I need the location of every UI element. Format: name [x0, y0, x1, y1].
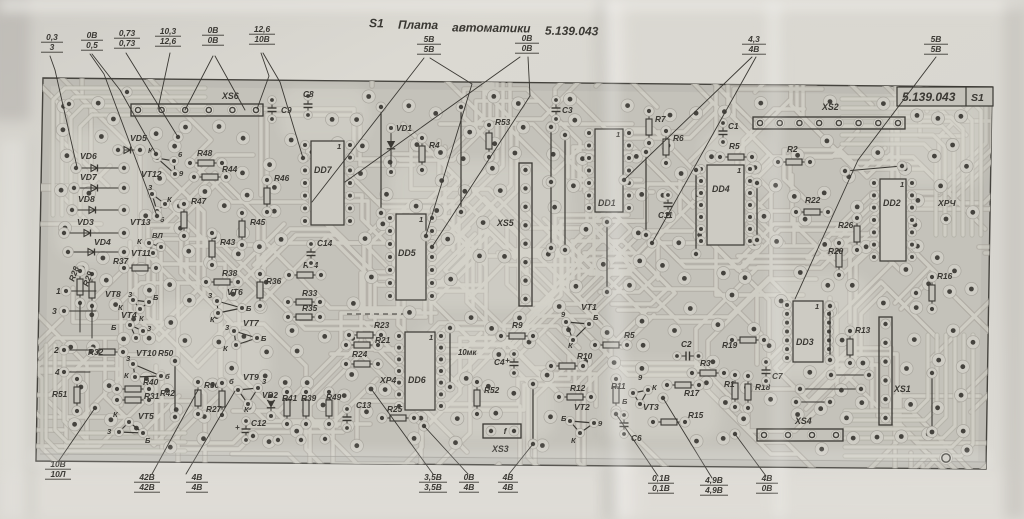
svg-text:XS5: XS5: [496, 218, 514, 228]
board inner edge line: [40, 454, 986, 462]
svg-text:0В: 0В: [522, 33, 533, 43]
svg-text:ХРЧ: ХРЧ: [937, 198, 956, 208]
wire jumper 9: [752, 178, 762, 245]
resistor R47: [179, 196, 207, 241]
svg-text:VD7: VD7: [80, 172, 98, 182]
resistor R23: [344, 320, 390, 340]
diode VD3: [59, 217, 130, 238]
svg-text:R10: R10: [577, 351, 593, 361]
svg-text:S1: S1: [369, 16, 384, 30]
svg-text:б: б: [229, 377, 234, 386]
connector XS5: [496, 163, 532, 306]
svg-text:C1: C1: [728, 121, 739, 131]
node annotation: [155, 26, 181, 46]
svg-text:R2: R2: [787, 144, 798, 154]
wire jumper 6: [602, 217, 612, 297]
svg-text:1: 1: [429, 333, 433, 342]
transistor VT12: [141, 146, 184, 179]
svg-text:R21: R21: [375, 335, 391, 345]
svg-text:R49: R49: [326, 392, 342, 402]
svg-text:R23: R23: [374, 320, 390, 330]
svg-text:R36: R36: [266, 276, 282, 286]
resistor R53: [484, 117, 511, 162]
transistor VT2: [561, 402, 603, 445]
svg-text:DD7: DD7: [314, 165, 333, 175]
resistor R44: [189, 164, 238, 182]
node annotation: [459, 472, 479, 492]
svg-text:R33: R33: [302, 288, 318, 298]
svg-text:R1: R1: [724, 379, 735, 389]
wire jumper 3: [445, 323, 455, 392]
resistor R29: [80, 269, 97, 311]
svg-text:VT11: VT11: [131, 248, 151, 258]
svg-text:Б: Б: [145, 436, 151, 445]
svg-text:4В: 4В: [761, 473, 773, 483]
svg-text:0,5: 0,5: [86, 40, 98, 50]
svg-text:VT5: VT5: [138, 411, 154, 421]
board edge shading: [36, 78, 992, 469]
resistor R48: [185, 148, 227, 168]
svg-text:VT6: VT6: [227, 287, 243, 297]
resistor R18: [743, 371, 771, 413]
svg-text:3: 3: [52, 306, 57, 316]
svg-text:R41: R41: [282, 393, 298, 403]
svg-text:0В: 0В: [87, 30, 98, 40]
svg-text:0,3: 0,3: [46, 32, 58, 42]
svg-text:R13: R13: [855, 325, 871, 335]
svg-text:Б: Б: [153, 293, 159, 302]
leader lines bottom: [58, 390, 766, 478]
svg-text:VD4: VD4: [94, 237, 111, 247]
node annotation: [41, 32, 63, 52]
svg-text:VD1: VD1: [396, 124, 412, 133]
svg-text:5В: 5В: [931, 44, 942, 54]
IC DD4: [696, 164, 754, 245]
resistor R38: [201, 268, 243, 287]
resistor R51: [52, 374, 82, 416]
svg-text:C12: C12: [251, 418, 267, 428]
connector XS4: [757, 416, 843, 441]
wire node links: [64, 291, 96, 372]
svg-text:4В: 4В: [748, 44, 760, 54]
wire link DD2 right: [791, 370, 874, 407]
svg-text:VT4: VT4: [121, 310, 137, 320]
svg-text:5В: 5В: [424, 34, 435, 44]
resistor R26: [838, 213, 862, 255]
svg-text:0В: 0В: [208, 25, 219, 35]
svg-text:5В: 5В: [424, 44, 435, 54]
svg-text:10В: 10В: [254, 34, 269, 44]
svg-text:R27: R27: [206, 404, 222, 414]
transistor VT1: [561, 302, 599, 350]
svg-text:12,6: 12,6: [160, 36, 177, 46]
svg-text:R26: R26: [838, 220, 854, 230]
IC DD5: [385, 213, 436, 300]
svg-text:XS2: XS2: [821, 102, 839, 112]
resistor R6: [661, 126, 684, 168]
svg-text:VT2: VT2: [574, 402, 590, 412]
corner pads: [911, 288, 973, 465]
svg-text:0В: 0В: [208, 35, 219, 45]
node annotation: [249, 24, 275, 44]
node annotation: [924, 34, 948, 54]
svg-text:R48: R48: [197, 148, 213, 158]
svg-text:VD8: VD8: [78, 194, 95, 204]
leader lines top: [50, 53, 936, 299]
svg-text:DD5: DD5: [398, 248, 416, 258]
svg-text:4В: 4В: [502, 472, 514, 482]
svg-text:R37: R37: [113, 256, 129, 266]
svg-text:12,6: 12,6: [254, 24, 271, 34]
svg-text:C13: C13: [356, 400, 372, 410]
transistor VT8: [105, 289, 159, 314]
svg-text:5В: 5В: [931, 34, 942, 44]
resistor R28: [66, 265, 85, 309]
svg-text:42В: 42В: [138, 482, 154, 492]
svg-text:C9: C9: [281, 105, 292, 115]
svg-text:VT3: VT3: [643, 402, 659, 412]
svg-text:DD6: DD6: [408, 375, 426, 385]
wire jumper 5: [560, 130, 570, 255]
svg-text:5.139.043: 5.139.043: [545, 24, 599, 39]
node 2: [53, 345, 69, 355]
svg-text:R40: R40: [143, 377, 159, 387]
svg-text:R25: R25: [387, 404, 403, 414]
resistor R13: [845, 325, 871, 368]
svg-text:R44: R44: [222, 164, 238, 174]
leader endpoint pads: [64, 87, 740, 445]
resistor R24: [341, 349, 383, 369]
svg-text:R51: R51: [52, 389, 68, 399]
connector XS6: [131, 91, 263, 116]
svg-text:VD5: VD5: [130, 133, 147, 143]
resistor R34: [284, 260, 326, 280]
IC DD3: [782, 300, 833, 362]
node annotation: [742, 34, 766, 54]
node annotation: [419, 472, 447, 492]
wire jumper 2: [456, 102, 466, 217]
resistor R25: [377, 404, 419, 423]
svg-text:VD6: VD6: [80, 151, 97, 161]
diode VD4: [63, 237, 130, 257]
svg-text:0В: 0В: [522, 43, 533, 53]
wire jumper 4: [528, 379, 538, 449]
svg-text:VD3: VD3: [77, 217, 94, 227]
transistor VT11: [131, 231, 166, 258]
svg-text:Б: Б: [561, 414, 567, 423]
svg-text:1: 1: [900, 180, 904, 189]
capacitor C6: [620, 411, 642, 443]
transistor VT13: [130, 183, 173, 227]
svg-text:VT9: VT9: [243, 372, 259, 382]
capacitor C1: [719, 119, 739, 147]
via pads: [55, 90, 980, 456]
resistor R4: [417, 133, 440, 175]
node XP1: [937, 198, 956, 225]
resistor R1: [724, 370, 740, 412]
resistor R31: [112, 391, 160, 405]
diode VD8: [67, 194, 130, 215]
svg-text:R15: R15: [688, 410, 704, 420]
svg-text:R4: R4: [429, 140, 440, 150]
resistor R46: [262, 173, 290, 217]
resistor R49: [324, 387, 342, 429]
svg-text:R31: R31: [144, 391, 160, 401]
svg-text:R24: R24: [352, 349, 368, 359]
resistor R5: [715, 141, 757, 162]
svg-text:R52: R52: [484, 385, 500, 395]
capacitor C9: [268, 96, 292, 124]
svg-text:+: +: [505, 356, 510, 365]
svg-text:4В: 4В: [463, 482, 475, 492]
node annotation: [202, 25, 224, 45]
svg-text:VT7: VT7: [243, 318, 260, 328]
svg-text:R42: R42: [160, 389, 175, 398]
resistor R11: [611, 374, 626, 416]
svg-text:C2: C2: [681, 339, 692, 349]
capacitor C13: [343, 400, 372, 432]
svg-text:R5: R5: [729, 141, 740, 151]
diode VD1: [386, 123, 412, 177]
node annotation: [756, 473, 778, 493]
svg-text:VT13: VT13: [130, 217, 151, 227]
svg-text:VD2: VD2: [262, 391, 278, 400]
node annotation: [515, 33, 539, 53]
node annotation: [417, 34, 441, 54]
resistor R27: [206, 378, 227, 420]
svg-text:0В: 0В: [464, 472, 475, 482]
wire jumper 7: [641, 147, 651, 240]
node annotation: [186, 472, 208, 492]
svg-text:4В: 4В: [191, 472, 203, 482]
svg-text:4В: 4В: [502, 482, 514, 492]
capacitor C8: [303, 89, 314, 119]
svg-text:R16: R16: [937, 271, 953, 281]
transistor VT4: [111, 310, 152, 343]
transistor VT9: [229, 372, 267, 414]
svg-text:R47: R47: [191, 196, 207, 206]
svg-text:+: +: [235, 423, 240, 432]
resistor R30: [193, 377, 220, 419]
svg-text:R53: R53: [495, 117, 511, 127]
resistor R17: [662, 380, 704, 398]
resistor R12: [554, 383, 596, 402]
capacitor C7: [762, 358, 783, 386]
svg-text:1: 1: [419, 215, 423, 224]
resistor R15: [648, 410, 704, 427]
capacitor C3: [552, 96, 573, 124]
svg-text:Б: Б: [593, 313, 599, 322]
svg-text:0,1В: 0,1В: [652, 473, 670, 483]
svg-text:XS6: XS6: [221, 91, 239, 101]
resistor R20: [828, 238, 844, 280]
svg-text:VT10: VT10: [136, 348, 157, 358]
svg-text:1: 1: [815, 302, 819, 311]
svg-text:4,9В: 4,9В: [704, 485, 723, 495]
svg-text:1: 1: [56, 286, 61, 296]
transistor VT6: [208, 287, 252, 324]
svg-text:R12: R12: [570, 383, 586, 393]
svg-text:10,3: 10,3: [160, 26, 177, 36]
node 3: [52, 306, 69, 316]
resistor R45: [237, 208, 266, 250]
svg-text:R22: R22: [805, 195, 821, 205]
resistor R7: [644, 106, 666, 148]
resistor R22: [791, 195, 833, 217]
IC DD7: [300, 140, 354, 225]
svg-text:VT1: VT1: [581, 302, 597, 312]
resistor R2: [773, 144, 815, 167]
wire R50 jumper: [158, 348, 180, 422]
svg-text:R7: R7: [655, 114, 666, 124]
svg-text:R45: R45: [250, 217, 266, 227]
connector XS1: [879, 317, 911, 425]
connector XS2: [753, 102, 905, 129]
svg-text:4,3: 4,3: [747, 34, 760, 44]
capacitor C2: [673, 339, 703, 361]
svg-text:1: 1: [337, 142, 341, 151]
node 4: [54, 367, 69, 377]
svg-text:3: 3: [50, 42, 55, 52]
transistor VT7: [223, 318, 267, 353]
node annotation: [81, 30, 103, 50]
resistor R40: [112, 377, 159, 394]
svg-text:R17: R17: [684, 388, 700, 398]
svg-text:0В: 0В: [762, 483, 773, 493]
svg-text:DD2: DD2: [883, 198, 901, 208]
node 1: [56, 286, 71, 296]
transistor VT10: [124, 348, 170, 382]
capacitor C12: [235, 417, 267, 445]
svg-text:DD4: DD4: [712, 184, 730, 194]
node annotation: [498, 472, 518, 492]
resistor R3: [687, 358, 729, 378]
resistor R32: [86, 347, 128, 357]
svg-text:R9: R9: [512, 320, 523, 330]
svg-text:S1: S1: [971, 92, 984, 104]
svg-text:DD3: DD3: [796, 337, 814, 347]
node XP4: [366, 375, 397, 395]
node annotation: [114, 28, 140, 48]
wire link top DD2: [840, 161, 907, 176]
svg-text:C8: C8: [303, 89, 314, 99]
title: [369, 16, 599, 38]
svg-text:б: б: [165, 372, 170, 381]
svg-text:ХР4: ХР4: [379, 375, 396, 385]
diode VD2: [262, 391, 278, 421]
svg-text:R38: R38: [222, 268, 238, 278]
svg-text:XS1: XS1: [893, 384, 911, 394]
svg-text:2: 2: [53, 345, 59, 355]
IC DD2: [869, 178, 916, 261]
svg-text:R35: R35: [302, 303, 318, 313]
resistor R10: [546, 351, 593, 371]
svg-text:0,73: 0,73: [119, 38, 136, 48]
svg-text:R39: R39: [301, 393, 317, 403]
node annotation: [648, 473, 674, 493]
capacitor C4: [494, 350, 519, 378]
svg-text:Б: Б: [111, 323, 117, 332]
svg-text:4В: 4В: [191, 482, 203, 492]
resistor R37: [113, 256, 161, 273]
connector XS3: [483, 424, 521, 454]
svg-text:ВЛ: ВЛ: [152, 231, 163, 240]
resistor R39: [301, 387, 317, 429]
diode VD5: [113, 133, 147, 155]
resistor R21: [341, 335, 391, 350]
resistor R5: [590, 330, 635, 350]
resistor R36: [255, 269, 282, 311]
transistor VT3: [622, 373, 659, 412]
ground pour patches: [55, 85, 985, 440]
svg-text:VT8: VT8: [105, 289, 121, 299]
svg-text:0,73: 0,73: [119, 28, 136, 38]
resistor R52: [472, 377, 500, 419]
node annotation: [134, 472, 160, 492]
resistor R16: [927, 271, 953, 314]
svg-text:R43: R43: [220, 237, 236, 247]
svg-text:3,5В: 3,5В: [424, 482, 442, 492]
svg-text:10мк: 10мк: [458, 348, 477, 357]
resistor R9: [496, 320, 538, 341]
svg-text:Плата: Плата: [398, 18, 439, 33]
resistor R41: [282, 387, 298, 429]
resistor R33: [283, 288, 325, 307]
svg-text:10Л: 10Л: [50, 469, 65, 479]
svg-text:1: 1: [737, 166, 741, 175]
transistor VT5: [107, 410, 154, 445]
svg-text:4,9В: 4,9В: [704, 475, 723, 485]
svg-text:0,1В: 0,1В: [652, 483, 670, 493]
IC DD1: [584, 128, 633, 212]
wire jumper 1: [546, 122, 556, 253]
resistor R35: [283, 303, 325, 322]
svg-text:R19: R19: [722, 340, 738, 350]
svg-text:XS4: XS4: [794, 416, 812, 426]
resistor R19: [722, 335, 769, 350]
capacitor C11: [658, 191, 673, 220]
svg-text:R20: R20: [828, 246, 844, 256]
svg-text:Б: Б: [261, 334, 267, 343]
capacitor C14: [307, 238, 333, 267]
svg-text:R5: R5: [624, 330, 635, 340]
svg-text:5.139.043: 5.139.043: [902, 90, 956, 104]
diode VD6: [71, 151, 130, 173]
dashed net line: [347, 313, 403, 315]
wire jumper 2b: [376, 102, 386, 218]
svg-text:C4: C4: [494, 357, 505, 367]
svg-text:автоматики: автоматики: [452, 20, 531, 35]
resistor R43: [207, 228, 236, 270]
svg-text:R32: R32: [88, 347, 104, 357]
wire jumper 8: [691, 165, 701, 259]
svg-text:R50: R50: [158, 348, 174, 358]
svg-text:C3: C3: [562, 105, 573, 115]
node annotation: [700, 475, 728, 495]
wire jumper 10: [825, 301, 835, 365]
node annotation: [45, 459, 71, 479]
svg-text:Б: Б: [246, 304, 252, 313]
svg-text:R46: R46: [274, 173, 290, 183]
svg-text:C14: C14: [317, 238, 333, 248]
svg-text:R6: R6: [673, 133, 684, 143]
PCB board outline: [36, 78, 992, 469]
diode VD7: [69, 172, 130, 193]
title block box: [897, 87, 993, 106]
svg-text:VT12: VT12: [141, 169, 162, 179]
IC DD6: [394, 331, 445, 410]
